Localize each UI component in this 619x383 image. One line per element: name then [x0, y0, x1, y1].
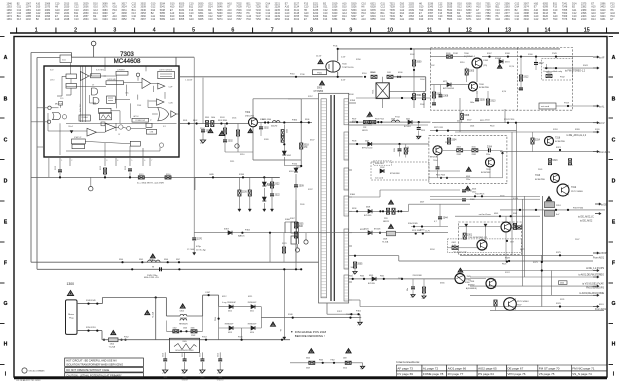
svg-text:1,5V: 1,5V: [341, 57, 346, 59]
svg-text:2112: 2112: [55, 166, 57, 170]
svg-text:VS page 75: VS page 75: [539, 372, 555, 376]
svg-text:AIO2 page 65: AIO2 page 65: [478, 366, 497, 370]
svg-text:A(3G368DS): A(3G368DS): [466, 287, 477, 290]
svg-text:1300: 1300: [67, 282, 75, 286]
svg-text:to VS,VS,DE1,FV,AF,: to VS,VS,DE1,FV,AF,: [582, 283, 604, 286]
svg-text:8.4V REG: 8.4V REG: [96, 70, 105, 72]
svg-text:BEFORE REPAIRING !: BEFORE REPAIRING !: [295, 334, 325, 338]
svg-text:10n: 10n: [407, 288, 409, 291]
svg-text:HOT CIRCUIT : BE CAREFUL AND U: HOT CIRCUIT : BE CAREFUL AND USE AN: [66, 358, 116, 362]
svg-text:3065: 3065: [198, 18, 204, 21]
svg-text:LATCH: LATCH: [133, 115, 139, 118]
svg-text:F306: F306: [305, 119, 309, 121]
svg-text:8: 8: [310, 27, 313, 33]
svg-text:7366: 7366: [485, 18, 491, 21]
svg-text:5: 5: [192, 27, 195, 33]
svg-text:2410: 2410: [581, 18, 587, 21]
svg-text:D10: D10: [419, 18, 424, 21]
svg-text:GND: GND: [200, 377, 205, 379]
svg-text:G10: G10: [170, 18, 175, 21]
svg-text:GND/LD: GND/LD: [217, 380, 224, 382]
svg-text:T3,15A: T3,15A: [382, 241, 389, 244]
svg-text:100k: 100k: [211, 117, 215, 119]
svg-text:6367: 6367: [224, 229, 230, 231]
svg-text:2343: 2343: [467, 191, 473, 193]
svg-text:1: 1: [35, 27, 38, 33]
svg-text:4303: 4303: [546, 73, 552, 75]
svg-text:to DE: to DE: [601, 204, 607, 207]
svg-text:12: 12: [466, 27, 472, 33]
svg-text:7: 7: [151, 160, 152, 162]
svg-text:to DE_AIO2: to DE_AIO2: [580, 220, 593, 223]
svg-text:3309: 3309: [306, 368, 310, 370]
svg-text:G11: G11: [400, 18, 405, 21]
svg-text:6302: 6302: [287, 155, 291, 157]
svg-text:AIO1 page 66: AIO1 page 66: [448, 366, 467, 370]
svg-text:5074: 5074: [217, 18, 223, 21]
svg-text:to BOP: to BOP: [599, 252, 607, 255]
svg-text:BC847BW: BC847BW: [555, 141, 565, 143]
svg-text:not used: not used: [541, 105, 550, 108]
svg-text:2304: 2304: [206, 131, 212, 133]
svg-text:1: 1: [61, 160, 62, 162]
svg-text:to AIO1,DE,FM,STEREO: to AIO1,DE,FM,STEREO: [578, 274, 604, 277]
svg-text:3112: 3112: [100, 166, 102, 170]
svg-text:to AIO1,DE,AIO2,FOME: to AIO1,DE,AIO2,FOME: [579, 292, 604, 295]
svg-text:to DE_AIO1,AL,1,2: to DE_AIO1,AL,1,2: [566, 134, 586, 137]
svg-text:F346: F346: [164, 259, 168, 261]
svg-text:3500: 3500: [416, 62, 422, 64]
svg-text:H10: H10: [553, 18, 558, 21]
svg-text:2344: 2344: [443, 218, 449, 220]
svg-text:CTX6853: CTX6853: [314, 91, 324, 93]
svg-text:220R: 220R: [472, 154, 477, 156]
svg-text:B: B: [4, 96, 8, 102]
svg-text:F320: F320: [490, 126, 494, 128]
svg-text:E: E: [4, 219, 8, 225]
svg-text:UVLO: UVLO: [50, 80, 55, 82]
svg-text:C: C: [612, 137, 616, 143]
svg-text:6356: 6356: [370, 18, 376, 21]
svg-text:6055: 6055: [179, 18, 185, 21]
svg-text:Plug: Plug: [69, 318, 74, 320]
svg-text:4304: 4304: [560, 283, 564, 285]
svg-text:2326: 2326: [242, 192, 248, 194]
svg-text:6306: 6306: [472, 189, 476, 191]
svg-text:DEMAG: DEMAG: [81, 116, 88, 119]
svg-text:F303 F304: F303 F304: [218, 120, 227, 122]
svg-text:TCET1101G: TCET1101G: [342, 67, 354, 69]
svg-text:PS page 64: PS page 64: [478, 372, 494, 376]
svg-text:F317 F318: F317 F318: [434, 127, 443, 129]
svg-text:2308: 2308: [443, 96, 449, 98]
svg-text:G: G: [3, 301, 7, 307]
svg-text:3,9 2W: 3,9 2W: [408, 146, 410, 152]
svg-text:2324 F368: 2324 F368: [413, 275, 422, 277]
svg-text:AF page 73: AF page 73: [397, 366, 413, 370]
svg-text:11,5V: 11,5V: [509, 66, 515, 68]
svg-text:5308: 5308: [391, 119, 395, 121]
svg-text:F13: F13: [17, 18, 22, 21]
svg-text:DO NOT OPERATE WITHOUT CAGE: DO NOT OPERATE WITHOUT CAGE: [66, 368, 109, 372]
svg-text:3312: 3312: [523, 77, 529, 79]
svg-text:11: 11: [427, 27, 432, 33]
svg-text:to AL: to AL: [599, 106, 605, 109]
svg-text:C: C: [4, 137, 8, 143]
svg-text:2313: 2313: [421, 130, 425, 132]
svg-text:7316: 7316: [555, 138, 561, 140]
svg-text:4305: 4305: [494, 213, 498, 215]
svg-text:F336 6303: F336 6303: [375, 163, 384, 165]
svg-text:680k 1/2W +5%: 680k 1/2W +5%: [144, 277, 159, 279]
svg-text:RVM06GP: RVM06GP: [248, 302, 257, 304]
svg-text:VPO page 76: VPO page 76: [507, 372, 525, 376]
svg-text:7308: 7308: [470, 281, 474, 283]
svg-text:220R: 220R: [457, 154, 462, 156]
svg-text:470p: 470p: [196, 246, 202, 248]
svg-text:FV page 69: FV page 69: [397, 372, 413, 376]
svg-text:G12: G12: [534, 18, 539, 21]
svg-text:PDTC143EU: PDTC143EU: [517, 301, 529, 303]
svg-text:7301 BC847BW(-1,2): 7301 BC847BW(-1,2): [468, 237, 487, 239]
svg-text:3301: 3301: [205, 117, 209, 119]
svg-text:F345: F345: [139, 259, 143, 261]
svg-text:BYV420M: BYV420M: [390, 173, 400, 175]
svg-text:F319: F319: [480, 120, 484, 122]
svg-text:to AF: to AF: [599, 57, 605, 60]
svg-text:100k: 100k: [351, 267, 355, 269]
svg-text:2306: 2306: [183, 328, 187, 330]
svg-text:B11: B11: [266, 18, 271, 21]
svg-text:RMM06B: RMM06B: [267, 185, 276, 187]
svg-text:5354: 5354: [351, 18, 357, 21]
svg-text:3402: 3402: [524, 18, 530, 21]
svg-text:F350 F351: F350 F351: [86, 327, 97, 329]
svg-text:to FM-STEREO-1,2: to FM-STEREO-1,2: [565, 70, 586, 73]
svg-text:F358: F358: [350, 100, 356, 102]
svg-text:F348 F349: F348 F349: [86, 300, 97, 302]
svg-text:B: B: [612, 96, 616, 102]
svg-text:3313: 3313: [552, 160, 558, 162]
svg-text:2306: 2306: [470, 126, 474, 128]
svg-text:C10: C10: [208, 18, 213, 21]
svg-text:BC847BW: BC847BW: [535, 179, 545, 181]
svg-text:3256: 3256: [313, 18, 319, 21]
svg-text:2360: 2360: [409, 18, 415, 21]
svg-text:1505: 1505: [467, 276, 471, 278]
svg-text:F363: F363: [319, 359, 323, 361]
svg-text:4: 4: [153, 27, 156, 33]
svg-text:5069: 5069: [160, 18, 166, 21]
svg-text:C10: C10: [381, 18, 386, 21]
svg-text:3354: 3354: [332, 18, 338, 21]
svg-text:L01.1E AA 3122 785 10283: L01.1E AA 3122 785 10283: [16, 379, 41, 382]
svg-text:P344: P344: [215, 317, 217, 321]
svg-text:H: H: [612, 341, 616, 347]
svg-text:Mains: Mains: [68, 314, 75, 316]
svg-text:6312: 6312: [228, 311, 232, 313]
svg-text:4,5V: 4,5V: [502, 91, 507, 93]
svg-text:4: 4: [117, 160, 118, 162]
svg-text:CURRENT: CURRENT: [117, 69, 125, 71]
svg-text:(25): (25): [484, 65, 488, 67]
svg-text:mit GL-Typ: mit GL-Typ: [196, 249, 207, 252]
svg-text:220n: 220n: [486, 154, 490, 156]
svg-text:BYD33D: BYD33D: [364, 215, 372, 217]
svg-text:F370: F370: [556, 303, 562, 305]
svg-text:to DE_AIO2_IC: to DE_AIO2_IC: [578, 216, 594, 219]
svg-text:4k7: 4k7: [457, 121, 460, 123]
svg-text:FM NIC-page 71: FM NIC-page 71: [572, 366, 595, 370]
svg-text:2314: 2314: [394, 148, 396, 152]
svg-text:CLN: CLN: [169, 103, 174, 105]
svg-text:GND: GND: [163, 377, 168, 379]
svg-text:E: E: [612, 219, 616, 225]
svg-text:3104: 3104: [102, 18, 108, 21]
svg-text:ISOLATION TRANSFORMER WHEN SER: ISOLATION TRANSFORMER WHEN SERVICING: [66, 363, 123, 367]
svg-text:From AIO1: From AIO1: [593, 257, 605, 260]
svg-text:CAUTION : LETHAL POTENTIALS AT: CAUTION : LETHAL POTENTIALS AT PRIMARY: [66, 373, 122, 377]
svg-text:2310: 2310: [162, 353, 164, 357]
svg-text:3301: 3301: [467, 235, 473, 237]
svg-text:F320: F320: [575, 129, 581, 131]
svg-text:BZX79-B3V9: BZX79-B3V9: [443, 88, 454, 90]
svg-text:6310: 6310: [250, 332, 254, 334]
svg-text:F308: F308: [352, 141, 356, 143]
svg-text:220n: 220n: [466, 179, 470, 181]
svg-text:fo = 19k0 3K9 TL and 470R: fo = 19k0 3K9 TL and 470R: [137, 182, 164, 184]
svg-text:3313: 3313: [490, 101, 496, 103]
svg-text:7356: 7356: [390, 18, 396, 21]
svg-text:F316: F316: [292, 164, 298, 166]
svg-text:2302: 2302: [228, 141, 234, 143]
svg-text:F361: F361: [356, 311, 362, 313]
svg-text:BC847BW: BC847BW: [479, 87, 489, 89]
svg-text:FOME page 78: FOME page 78: [423, 372, 444, 376]
svg-text:F321: F321: [556, 147, 562, 149]
svg-text:MC44608: MC44608: [114, 58, 141, 65]
svg-text:CLP: CLP: [169, 87, 174, 89]
svg-text:F325: F325: [502, 264, 506, 266]
svg-text:not used: not used: [375, 177, 384, 180]
svg-text:3: 3: [113, 27, 116, 33]
svg-text:A10: A10: [361, 18, 366, 21]
svg-text:D10: D10: [112, 18, 117, 21]
svg-text:to FV: to FV: [599, 122, 605, 125]
svg-text:2509: 2509: [299, 186, 305, 188]
svg-text:2305: 2305: [480, 100, 486, 102]
svg-text:FM ST page 70: FM ST page 70: [539, 366, 560, 370]
svg-text:2391: 2391: [504, 18, 510, 21]
svg-text:3306: 3306: [191, 328, 195, 330]
svg-text:6: 6: [231, 27, 234, 33]
svg-text:F364 F365: F364 F365: [408, 223, 419, 225]
svg-text:2304: 2304: [487, 147, 493, 149]
svg-text:3308: 3308: [464, 115, 470, 117]
svg-text:F336: F336: [239, 174, 245, 176]
svg-text:1302: 1302: [173, 328, 177, 330]
svg-text:POWER SW: POWER SW: [135, 120, 145, 122]
svg-text:5563: 5563: [447, 18, 453, 21]
svg-text:NFR25: NFR25: [383, 221, 389, 223]
svg-text:F366: F366: [292, 120, 298, 122]
svg-text:G12: G12: [227, 18, 232, 21]
svg-text:14: 14: [545, 27, 551, 33]
svg-text:2M2: 2M2: [298, 226, 303, 228]
svg-text:2322: 2322: [275, 195, 281, 197]
svg-text:H10: H10: [247, 18, 252, 21]
svg-text:HF2822R: HF2822R: [179, 324, 188, 326]
svg-text:BCH-500N4202G403: BCH-500N4202G403: [176, 350, 194, 352]
svg-text:7: 7: [271, 27, 274, 33]
svg-text:4,5V: 4,5V: [341, 80, 346, 82]
svg-text:RVM06GP: RVM06GP: [248, 324, 257, 326]
svg-text:PDTC143EU: PDTC143EU: [571, 191, 584, 193]
svg-text:B11: B11: [572, 18, 577, 21]
svg-text:4,7: 4,7: [434, 221, 437, 223]
svg-text:4307: 4307: [420, 202, 424, 204]
svg-text:F375: F375: [556, 252, 562, 254]
svg-text:3335: 3335: [298, 224, 304, 226]
svg-text:F362: F362: [245, 230, 251, 232]
svg-text:5501: 5501: [317, 88, 323, 90]
svg-text:F341: F341: [583, 65, 589, 67]
svg-text:VS_S page 74: VS_S page 74: [572, 372, 592, 376]
svg-text:C10: C10: [74, 18, 79, 21]
svg-text:3371: 3371: [428, 18, 434, 21]
svg-text:F361: F361: [349, 276, 353, 278]
svg-text:GND: GND: [209, 174, 214, 176]
svg-text:F313 F314: F313 F314: [375, 119, 384, 121]
svg-text:2311: 2311: [182, 353, 184, 357]
svg-text:F362: F362: [331, 359, 335, 361]
svg-text:2103: 2103: [45, 18, 51, 21]
svg-text:F363: F363: [360, 276, 364, 278]
svg-text:7376: 7376: [562, 18, 568, 21]
svg-text:2113: 2113: [125, 166, 127, 170]
svg-text:3302: 3302: [287, 129, 289, 133]
svg-text:6: 6: [144, 160, 145, 162]
svg-text:3310: 3310: [343, 368, 347, 370]
svg-text:3305: 3305: [469, 71, 475, 73]
svg-text:D: D: [4, 178, 8, 184]
svg-text:2: 2: [74, 27, 77, 33]
svg-text:6371: 6371: [466, 18, 472, 21]
svg-text:7067: 7067: [236, 18, 242, 21]
svg-text:A10: A10: [55, 18, 60, 21]
svg-text:6427: 6427: [543, 18, 549, 21]
svg-text:G10: G10: [495, 18, 500, 21]
svg-text:H: H: [4, 341, 8, 347]
svg-text:3314: 3314: [535, 140, 541, 142]
svg-text:F: F: [612, 260, 615, 266]
svg-text:T1,25A: T1,25A: [109, 345, 116, 348]
svg-text:C12: C12: [457, 18, 462, 21]
svg-text:6311: 6311: [250, 311, 254, 313]
svg-text:1.25V REF: 1.25V REF: [80, 104, 82, 112]
svg-text:220R: 220R: [453, 53, 458, 55]
svg-text:2313: 2313: [217, 353, 219, 357]
svg-text:F13: F13: [323, 18, 328, 21]
svg-text:BYD33L: BYD33L: [368, 283, 375, 285]
svg-text:F302: F302: [193, 120, 197, 122]
svg-text:F344: F344: [119, 259, 123, 261]
svg-text:BC847BW: BC847BW: [481, 172, 490, 174]
svg-text:3111: 3111: [62, 60, 66, 62]
svg-text:6375: 6375: [443, 81, 447, 83]
svg-text:F: F: [4, 260, 7, 266]
svg-text:F360: F360: [350, 194, 356, 196]
svg-text:OUTPUT DRIVER: OUTPUT DRIVER: [159, 69, 173, 71]
svg-text:7302: 7302: [245, 112, 251, 114]
svg-text:D14: D14: [591, 18, 596, 21]
svg-text:3162: 3162: [294, 18, 300, 21]
svg-text:BF420B: BF420B: [430, 157, 438, 159]
svg-text:P312 P316: P312 P316: [504, 119, 515, 121]
svg-text:From AIO1: From AIO1: [599, 151, 611, 154]
svg-text:15: 15: [584, 27, 590, 33]
svg-text:BAV21: BAV21: [238, 235, 245, 238]
svg-text:F358: F358: [352, 208, 356, 210]
svg-text:BYG10J: BYG10J: [404, 126, 411, 128]
svg-text:220R: 220R: [191, 335, 196, 337]
svg-text:for Zxxxx only: for Zxxxx only: [454, 251, 468, 254]
svg-text:OSCILLOGRAMS: OSCILLOGRAMS: [29, 370, 46, 373]
svg-text:F319 F340: F319 F340: [573, 208, 584, 210]
svg-text:3052: 3052: [121, 18, 127, 21]
svg-text:3311: 3311: [472, 147, 476, 149]
svg-text:10R: 10R: [387, 72, 391, 74]
svg-text:Interconnections:: Interconnections:: [396, 360, 420, 364]
svg-text:P319: P319: [564, 103, 570, 105]
svg-text:AL page 72: AL page 72: [423, 366, 439, 370]
svg-text:DE page 67: DE page 67: [507, 366, 523, 370]
svg-text:3: 3: [106, 160, 107, 162]
svg-text:2048: 2048: [64, 18, 70, 21]
svg-text:GND: GND: [218, 377, 223, 379]
svg-text:7313: 7313: [535, 175, 541, 177]
svg-text:3142: 3142: [513, 213, 517, 215]
svg-text:6305: 6305: [406, 118, 410, 120]
svg-text:9: 9: [349, 27, 352, 33]
svg-text:6308: 6308: [366, 207, 370, 209]
svg-text:2064: 2064: [83, 18, 89, 21]
svg-text:1308: 1308: [383, 239, 387, 241]
svg-text:G10: G10: [476, 18, 481, 21]
svg-text:2312: 2312: [200, 353, 202, 357]
svg-text:F306A: F306A: [495, 57, 502, 60]
svg-text:NFR25: NFR25: [362, 130, 368, 132]
svg-text:BPY027-200: BPY027-200: [362, 147, 372, 149]
svg-text:3322: 3322: [274, 184, 280, 186]
svg-text:not for Zxxxx: not for Zxxxx: [479, 213, 492, 216]
svg-text:330k: 330k: [306, 358, 310, 360]
svg-text:2: 2: [71, 160, 72, 162]
svg-text:1102: 1102: [26, 18, 32, 21]
svg-text:6313: 6313: [228, 332, 232, 334]
svg-text:A: A: [4, 55, 8, 61]
svg-text:G: G: [611, 301, 615, 307]
svg-text:3518: 3518: [304, 145, 310, 147]
svg-text:I/O page 77: I/O page 77: [448, 372, 464, 376]
svg-text:A: A: [612, 55, 616, 61]
svg-text:C12: C12: [151, 18, 156, 21]
svg-text:F301: F301: [183, 120, 187, 122]
svg-text:F347: F347: [176, 259, 180, 261]
svg-text:F365: F365: [380, 276, 384, 278]
svg-text:2317: 2317: [337, 311, 343, 313]
svg-text:3431: 3431: [600, 18, 606, 21]
